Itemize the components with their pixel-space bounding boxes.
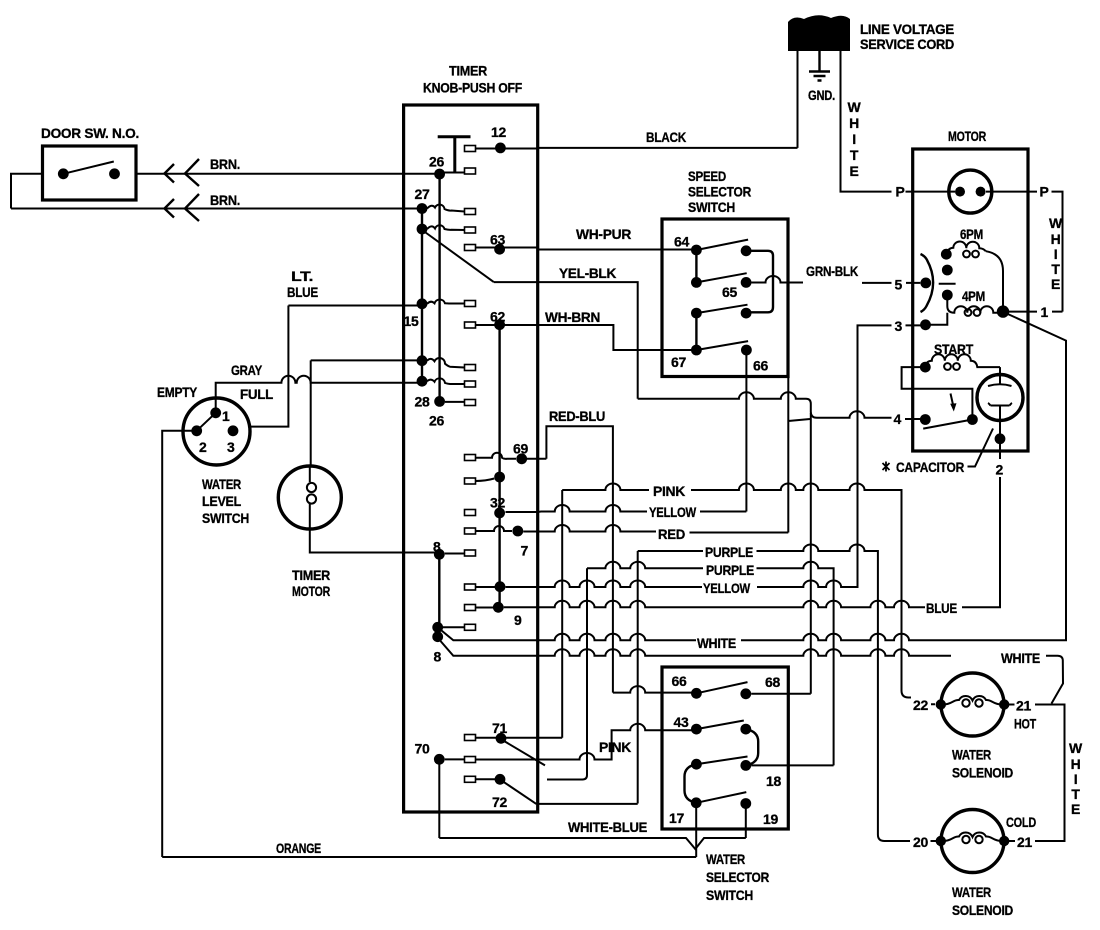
wire RED-BLU from 69 to water selector 66 <box>546 426 691 692</box>
wire WHITE A to motor 1 <box>442 313 1067 641</box>
svg-text:64: 64 <box>674 234 689 250</box>
lever 66 wsel <box>696 682 747 693</box>
svg-text:I: I <box>1074 771 1078 787</box>
svg-text:WATER: WATER <box>202 476 241 492</box>
wire 6PM to node1 <box>986 251 1003 311</box>
svg-text:RED-BLU: RED-BLU <box>549 408 605 424</box>
wire PURPLE2 to 18 <box>587 562 834 766</box>
wire BRN row2 <box>11 208 422 210</box>
vertical speed 66 down <box>745 350 747 512</box>
svg-text:MOTOR: MOTOR <box>292 583 330 599</box>
node 2 <box>995 433 1006 444</box>
svg-text:GND.: GND. <box>808 87 835 103</box>
terminal t63 <box>465 245 476 251</box>
svg-text:LT.: LT. <box>291 268 313 284</box>
svg-text:P: P <box>896 184 905 200</box>
svg-text:62: 62 <box>490 309 505 325</box>
svg-text:BRN.: BRN. <box>210 192 240 208</box>
wire BLUE 9 to capacitor 2 <box>504 439 1000 608</box>
svg-text:TIMER: TIMER <box>292 567 330 583</box>
svg-text:GRN-BLK: GRN-BLK <box>806 263 858 279</box>
svg-text:19: 19 <box>763 811 778 827</box>
wire WH-BRN to 67 <box>538 325 692 350</box>
svg-text:P: P <box>1040 184 1049 200</box>
protector contact right <box>976 187 986 197</box>
water selector box <box>662 667 788 829</box>
wire WH-PUR <box>538 249 692 251</box>
svg-text:15: 15 <box>404 313 419 329</box>
svg-text:69: 69 <box>513 441 528 457</box>
svg-text:8: 8 <box>433 539 441 555</box>
cold solenoid circle <box>941 810 1004 873</box>
vertical 70 down to WHITE-BLUE <box>438 759 440 838</box>
wire 5 pole dash <box>939 283 956 285</box>
wire 18 row outside <box>751 764 833 766</box>
wire t72 to node 72 <box>476 778 501 780</box>
timer contact column A <box>421 209 423 382</box>
6PM winding <box>946 241 986 254</box>
cold solenoid coil <box>943 833 1002 841</box>
node 43 right <box>740 724 751 735</box>
svg-text:YELLOW: YELLOW <box>703 580 751 596</box>
lever 43 <box>696 721 743 730</box>
wire PINK2 70 to 43 <box>476 724 692 760</box>
wire door loop left <box>11 174 43 209</box>
hot solenoid coil <box>943 696 1002 704</box>
terminal t7 <box>465 528 476 534</box>
label COLD <box>1009 840 1015 842</box>
water level contact 1 <box>210 407 221 418</box>
terminal t71 <box>465 735 476 741</box>
lever 64 <box>696 240 748 250</box>
svg-text:70: 70 <box>415 741 430 757</box>
node 5 <box>920 278 931 289</box>
hot solenoid node left <box>936 699 946 709</box>
svg-text:SWITCH: SWITCH <box>202 510 249 526</box>
node 71 <box>496 733 507 744</box>
svg-text:I: I <box>852 131 856 147</box>
node 68 <box>740 688 751 699</box>
svg-text:63: 63 <box>490 232 505 248</box>
wire 12 row <box>476 148 538 150</box>
capacitor circle <box>977 375 1023 421</box>
wire LT.BLUE row to timer 15 <box>288 305 422 307</box>
node 66 wsel <box>691 688 702 699</box>
node 63 <box>494 244 505 255</box>
wire 72 diagonal <box>503 782 536 804</box>
node 4 right <box>967 414 978 425</box>
svg-text:66: 66 <box>672 673 687 689</box>
svg-text:H: H <box>849 115 859 131</box>
node 360 <box>417 355 428 366</box>
wire 70 to terminal <box>445 758 465 760</box>
wire 8a to terminal <box>443 626 465 628</box>
svg-text:ORANGE: ORANGE <box>276 840 321 856</box>
water level contact 3 <box>228 425 239 436</box>
svg-text:2: 2 <box>996 462 1004 478</box>
jumper 64r to row3r <box>746 251 773 312</box>
svg-text:4: 4 <box>894 411 902 427</box>
speed column row3-67 <box>695 313 697 350</box>
node 28 <box>417 376 428 387</box>
wire YELLOW2 timer to motor 3 <box>506 325 921 587</box>
door switch contact left <box>58 168 69 179</box>
node 43 <box>691 724 702 735</box>
terminal t62 <box>465 322 476 328</box>
wire BRN row1 <box>136 173 440 175</box>
arrow actuator <box>951 394 954 407</box>
timer inner vertical V499 <box>498 325 500 608</box>
svg-text:I: I <box>1054 246 1058 262</box>
svg-text:43: 43 <box>674 714 689 730</box>
vertical V811 68 riser <box>810 413 812 694</box>
wire LT.BLUE to water level sw 3 <box>249 306 289 427</box>
svg-text:W: W <box>1049 215 1063 231</box>
wire 1 row <box>1004 311 1038 313</box>
svg-text:WH-PUR: WH-PUR <box>576 226 631 242</box>
node 15 <box>417 298 428 309</box>
svg-text:5: 5 <box>895 277 903 293</box>
squiggle 27 to terminal <box>427 205 465 212</box>
node 4PM upper <box>942 290 953 301</box>
wire water level 2 down to orange row <box>162 431 197 857</box>
node 66 speed <box>741 345 752 356</box>
vertical V588 <box>547 568 587 779</box>
svg-text:TIMER: TIMER <box>449 63 487 79</box>
svg-text:22: 22 <box>913 697 928 713</box>
node row3 left <box>691 308 702 319</box>
door switch S1 box <box>43 146 137 200</box>
squiggle t69 to node 69 <box>476 453 517 459</box>
svg-text:LEVEL: LEVEL <box>202 493 242 509</box>
svg-text:FULL: FULL <box>240 386 274 402</box>
svg-text:WHITE-BLUE: WHITE-BLUE <box>568 819 647 835</box>
wire 17 down to orange <box>695 803 697 857</box>
vertical PINK to 71 <box>561 490 563 738</box>
wire timer motor bottom to timer 8 <box>310 529 440 553</box>
wire capacitor to node 2 <box>999 406 1001 439</box>
svg-text:WATER: WATER <box>952 747 991 763</box>
lever 4 <box>923 420 972 429</box>
node 7 <box>512 526 523 537</box>
node 17 <box>691 797 702 808</box>
svg-text:SELECTOR: SELECTOR <box>706 869 769 885</box>
motor box <box>913 149 1028 451</box>
svg-text:SOLENOID: SOLENOID <box>952 765 1013 781</box>
svg-text:DOOR SW. N.O.: DOOR SW. N.O. <box>41 125 139 141</box>
wire 8 to terminal <box>445 553 465 555</box>
line voltage plug <box>788 15 850 51</box>
svg-text:HOT: HOT <box>1014 716 1037 732</box>
svg-text:T: T <box>1071 786 1080 802</box>
wire 69 row <box>527 458 546 460</box>
wire t477 to node <box>476 479 495 482</box>
speed selector box <box>662 219 788 377</box>
svg-text:W: W <box>1069 740 1083 756</box>
svg-text:26: 26 <box>429 154 444 170</box>
wire 21 hot to 21 cold <box>1035 705 1065 842</box>
wire timer motor row to timer dot <box>311 359 422 361</box>
svg-text:PURPLE: PURPLE <box>706 562 754 578</box>
svg-text:3: 3 <box>227 439 235 455</box>
wire t9 to node <box>476 607 499 609</box>
vertical V788 red riser <box>788 378 810 533</box>
wire start to capacitor <box>999 367 1001 385</box>
svg-text:7: 7 <box>521 543 529 559</box>
node 3 <box>920 319 931 330</box>
terminal tY2 <box>465 584 476 590</box>
node 8b <box>432 631 443 642</box>
svg-text:3: 3 <box>895 318 903 334</box>
wire P row left segment <box>906 191 949 193</box>
wire ORANGE row <box>162 856 696 858</box>
node 18 left <box>691 759 702 770</box>
timer motor coil <box>309 466 311 529</box>
terminal t12 <box>465 146 476 152</box>
svg-text:COLD: COLD <box>1006 814 1036 830</box>
svg-text:1: 1 <box>222 408 230 424</box>
capacitor pointer <box>968 429 994 467</box>
terminal t72 <box>465 776 476 782</box>
water level contact 2 <box>191 425 202 436</box>
svg-text:YEL-BLK: YEL-BLK <box>559 265 616 281</box>
wire plug left to BLACK <box>797 51 799 148</box>
svg-text:BRN.: BRN. <box>210 156 240 172</box>
svg-text:H: H <box>1071 756 1081 772</box>
speed column 64-65 <box>695 250 697 282</box>
wire START stub loop <box>902 367 973 419</box>
terminal t9 <box>465 605 476 611</box>
terminal t32 <box>465 510 476 516</box>
svg-text:17: 17 <box>669 810 684 826</box>
svg-text:RED: RED <box>658 526 685 542</box>
squiggle t7 to node 7 <box>476 526 513 531</box>
water level switch circle <box>183 398 250 465</box>
svg-text:71: 71 <box>492 720 507 736</box>
wire 62 row <box>476 324 538 326</box>
svg-text:4PM: 4PM <box>962 288 985 304</box>
node 64 <box>691 245 702 256</box>
wire P right loop down to 1 <box>1052 192 1063 312</box>
connector chevrons row1 <box>165 159 200 186</box>
svg-text:SOLENOID: SOLENOID <box>952 902 1013 918</box>
wire 72 row <box>536 803 637 805</box>
capacitor plates <box>988 384 1012 405</box>
node START left <box>920 362 931 373</box>
svg-text:E: E <box>1071 801 1080 817</box>
timer box <box>404 105 538 812</box>
svg-text:2: 2 <box>199 439 207 455</box>
centrifugal arc <box>921 254 934 312</box>
svg-text:WATER: WATER <box>952 884 991 900</box>
wire BLACK <box>538 147 798 149</box>
svg-text:WHITE: WHITE <box>1001 650 1040 666</box>
svg-text:E: E <box>849 163 858 179</box>
node 26 top <box>434 169 445 180</box>
wire PURPLE1 72 to solenoid 20 <box>638 545 936 842</box>
node 62 <box>494 319 505 330</box>
cold solenoid node left <box>936 836 946 846</box>
svg-text:T: T <box>1051 261 1060 277</box>
node 229 <box>417 224 428 235</box>
svg-text:28: 28 <box>415 394 430 410</box>
protector leads <box>949 191 992 193</box>
wire tY2 to node <box>476 586 501 588</box>
door switch lever <box>63 162 114 174</box>
node 65 left <box>691 277 702 288</box>
water level lever 1-2 <box>197 413 216 431</box>
node 32 <box>494 508 505 519</box>
svg-text:H: H <box>1051 231 1061 247</box>
hot solenoid circle <box>941 673 1004 736</box>
connector chevrons row2 <box>165 194 200 221</box>
lever row3 <box>696 305 747 313</box>
jumper 18l to 17 <box>685 764 697 803</box>
svg-text:72: 72 <box>492 794 507 810</box>
svg-text:26: 26 <box>429 413 444 429</box>
squiggle 15 to terminal <box>427 299 465 303</box>
wire 71 row <box>476 737 563 739</box>
timer motor M1 circle <box>278 466 341 529</box>
wire GRN-BLK 65 to motor 5 <box>752 276 921 283</box>
terminal t69 <box>465 455 476 461</box>
START winding <box>925 354 1000 367</box>
node 8 <box>434 549 445 560</box>
wire 26b to terminal <box>445 401 465 403</box>
door switch contact right <box>109 168 120 179</box>
svg-text:BLUE: BLUE <box>287 284 318 300</box>
svg-text:12: 12 <box>491 124 506 140</box>
node 70 <box>434 754 445 765</box>
wire 68 row to V811 <box>751 693 811 695</box>
timer knob T symbol <box>438 137 471 173</box>
svg-text:20: 20 <box>913 834 928 850</box>
svg-text:8: 8 <box>434 649 442 665</box>
svg-text:BLUE: BLUE <box>926 600 957 616</box>
svg-text:65: 65 <box>722 284 737 300</box>
ground symbol <box>809 51 830 81</box>
svg-text:W: W <box>848 99 862 115</box>
svg-text:21: 21 <box>1017 834 1032 850</box>
svg-text:67: 67 <box>671 354 686 370</box>
svg-text:WHITE: WHITE <box>697 635 736 651</box>
label HOT <box>1009 704 1015 706</box>
node 477 <box>494 472 505 483</box>
terminal t26 <box>465 168 476 174</box>
wire 26 to terminal <box>440 172 465 174</box>
node 12 <box>495 143 506 154</box>
node 18 <box>740 760 751 771</box>
svg-text:68: 68 <box>765 674 780 690</box>
node 27 <box>417 203 428 214</box>
terminal t477 <box>465 478 476 484</box>
squiggle 229 to terminal <box>427 225 465 230</box>
node junction 1 <box>997 305 1009 317</box>
wire 3 to 4PM <box>926 313 948 325</box>
4PM winding <box>947 295 1003 313</box>
timer contact column B <box>438 174 440 401</box>
node 9 <box>493 602 504 613</box>
svg-text:PURPLE: PURPLE <box>705 544 753 560</box>
node 67 <box>691 345 702 356</box>
wire GRAY from water level 1 to timer 28 <box>216 376 422 413</box>
vertical 8 to 8b <box>438 554 440 636</box>
wire PINK to solenoid 22 <box>562 484 935 705</box>
wire P row right segment <box>992 191 1037 193</box>
svg-text:T: T <box>850 147 859 163</box>
node 8a <box>432 622 443 633</box>
node 64 right <box>741 245 752 256</box>
svg-text:MOTOR: MOTOR <box>948 128 986 144</box>
svg-text:SWITCH: SWITCH <box>688 199 735 215</box>
node 4 left <box>920 414 931 425</box>
protector contact left <box>955 187 965 197</box>
wire RED 7 to V788 <box>523 525 788 533</box>
wire 63 row <box>476 247 538 249</box>
svg-text:SERVICE CORD: SERVICE CORD <box>860 36 954 52</box>
jumper 43r to 18 <box>746 729 758 765</box>
svg-text:SPEED: SPEED <box>688 168 726 184</box>
node 19 <box>740 798 751 809</box>
node 65 right <box>741 277 752 288</box>
svg-text:E: E <box>1051 276 1060 292</box>
svg-text:CAPACITOR: CAPACITOR <box>896 459 964 475</box>
svg-text:6PM: 6PM <box>960 226 983 242</box>
svg-text:WH-BRN: WH-BRN <box>545 309 600 325</box>
wire YEL-BLK to motor 4 <box>494 282 921 419</box>
node 69 <box>516 453 527 464</box>
motor protector circle <box>949 170 992 213</box>
svg-text:21: 21 <box>1016 698 1031 714</box>
svg-text:9: 9 <box>514 612 522 628</box>
svg-text:LINE VOLTAGE: LINE VOLTAGE <box>860 21 954 37</box>
wire YELLOW 32 to speed 66 <box>506 505 747 512</box>
node row3 right <box>741 308 752 319</box>
svg-text:SWITCH: SWITCH <box>706 887 753 903</box>
node 6PM left <box>941 249 952 260</box>
wire timer motor top to timer row <box>310 360 312 466</box>
node 72 <box>495 774 506 785</box>
vertical V637 purple1 to 72 row <box>637 551 639 804</box>
svg-text:32: 32 <box>490 495 505 511</box>
wire plug right to motor P <box>841 51 892 192</box>
node Y2 <box>495 581 506 592</box>
node 26 bottom <box>434 396 445 407</box>
lever 67 <box>696 341 748 350</box>
svg-text:66: 66 <box>753 358 768 374</box>
svg-text:WATER: WATER <box>706 851 745 867</box>
wire WHITE B to solenoid 21 <box>441 641 1064 704</box>
svg-text:1: 1 <box>1041 304 1049 320</box>
squiggle 28 to terminal <box>427 378 465 384</box>
svg-text:KNOB-PUSH OFF: KNOB-PUSH OFF <box>423 80 523 96</box>
svg-text:BLACK: BLACK <box>646 129 686 145</box>
wire 71 diagonal to 18 row <box>504 741 545 765</box>
svg-text:SELECTOR: SELECTOR <box>688 184 751 200</box>
svg-text:PINK: PINK <box>653 483 685 499</box>
cold solenoid node right <box>999 836 1009 846</box>
svg-text:27: 27 <box>415 186 430 202</box>
svg-text:YELLOW: YELLOW <box>649 504 697 520</box>
svg-text:EMPTY: EMPTY <box>157 384 198 400</box>
lever 65 <box>696 273 746 282</box>
wire WHITE-BLUE 70 to 19 <box>439 804 746 850</box>
squiggle 360 to terminal <box>427 358 465 368</box>
svg-text:18: 18 <box>766 773 781 789</box>
lever 18 <box>696 757 747 765</box>
wire diagonal 229 to YEL-BLK <box>424 231 494 282</box>
svg-text:GRAY: GRAY <box>231 362 263 378</box>
